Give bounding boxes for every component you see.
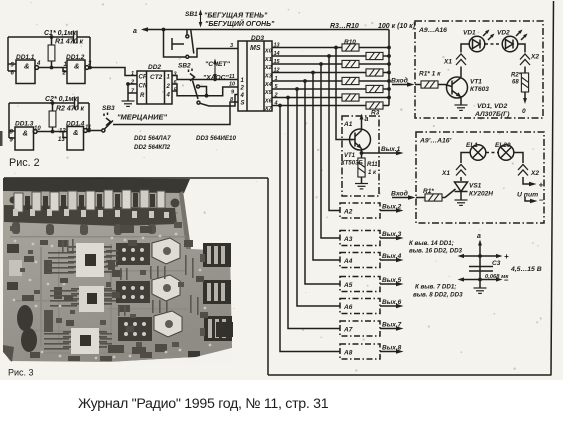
wire: X5 row (272, 88, 389, 90)
arrow: Вых.6 (380, 304, 404, 309)
wire: bus X0 to A1 (336, 48, 355, 140)
svg-text:A4: A4 (343, 258, 353, 265)
svg-text:VD1: VD1 (463, 30, 476, 37)
arrow: Вых.5 (380, 282, 404, 287)
node: R1 top junction (50, 35, 54, 39)
svg-text:DD2 564КП2: DD2 564КП2 (134, 144, 171, 151)
connector X2 lamp cell (518, 165, 528, 176)
svg-text:15: 15 (274, 59, 281, 65)
svg-text:–: – (539, 196, 544, 205)
lamp EL1 (470, 145, 486, 161)
wire: bus X3 to A4 (313, 73, 340, 261)
photo: right connector 3 (204, 316, 232, 341)
svg-text:R10: R10 (344, 39, 356, 46)
wire: DD2 CN and R to ground (128, 84, 137, 101)
photo: top component row shadow band (4, 205, 177, 226)
photo: bottom-right white paper notch (110, 348, 233, 366)
svg-text:1 к: 1 к (368, 170, 377, 176)
svg-text:X2: X2 (530, 170, 539, 177)
photo: right edge blob (216, 322, 233, 337)
thyristor VS1 (445, 182, 468, 200)
svg-text:DD1.4: DD1.4 (66, 121, 85, 128)
box A8 (340, 344, 380, 359)
resistor R1* lamp cell (416, 194, 445, 201)
box A3 (340, 231, 380, 246)
svg-text:3: 3 (174, 72, 177, 78)
svg-text:CN: CN (139, 84, 148, 90)
capacitor C3 (469, 267, 493, 272)
node: R1 bottom junction (50, 66, 54, 70)
arrow: Вход lamp cell (392, 195, 416, 200)
wire: bus X6 to A7 (288, 98, 340, 329)
svg-text:A2: A2 (343, 209, 353, 216)
photo: top row capacitors (14, 190, 165, 212)
svg-text:R1* 1 к: R1* 1 к (419, 71, 441, 78)
resistor R2 (49, 103, 56, 132)
resistor R5 (366, 85, 383, 92)
wire: X7 row (272, 105, 389, 107)
svg-text:R3: R3 (371, 110, 380, 117)
svg-text:КТ603: КТ603 (470, 86, 489, 93)
svg-text:DD1.3: DD1.3 (15, 121, 34, 128)
ground power (474, 288, 487, 293)
resistor R9 (366, 52, 383, 59)
svg-text:X2: X2 (530, 54, 539, 61)
arrow: Вых.2 (380, 208, 404, 213)
gate DD1.2 (67, 60, 89, 84)
ground LED cell (455, 105, 468, 110)
svg-text:2: 2 (62, 71, 67, 77)
svg-text:C2* 0,1мк: C2* 0,1мк (45, 96, 78, 103)
wire: dashed link VD1-VD2 (485, 43, 502, 45)
svg-text:4,5…15 В: 4,5…15 В (510, 266, 542, 273)
svg-text:Вых.5: Вых.5 (382, 277, 402, 284)
switch SB3 (102, 113, 113, 133)
photo: IC 1 (68, 243, 112, 277)
wire: bus X5 to A6 (297, 89, 340, 306)
node: emitter junction (360, 151, 364, 155)
svg-text:Вых.3: Вых.3 (382, 231, 402, 238)
node: SB2 junction (205, 94, 209, 98)
svg-text:CT2: CT2 (150, 74, 163, 81)
svg-text:13: 13 (274, 43, 280, 49)
svg-text:MS: MS (250, 45, 261, 52)
svg-text:DD2: DD2 (148, 64, 161, 71)
wire: EL20 to X2 lamp cell (514, 153, 532, 185)
svg-text:X3: X3 (264, 74, 273, 80)
photo: board base (3, 189, 232, 362)
wire: left drop to DD1.1 inputs (8, 37, 16, 71)
svg-text:S: S (241, 101, 245, 107)
arrow: Вых.4 (380, 258, 404, 263)
wire: EL1 to X1 (461, 153, 470, 182)
arrow: plus supply (529, 182, 537, 187)
svg-text:2: 2 (130, 80, 134, 86)
box A7 (340, 321, 380, 336)
box A2 (340, 203, 380, 218)
svg-text:Вых.2: Вых.2 (382, 204, 402, 211)
svg-text:+: + (539, 181, 544, 190)
svg-text:1: 1 (131, 71, 134, 77)
node: X2 bus junction (319, 62, 323, 66)
wire: SB2 lower contact to DD3 pin 9 (200, 95, 238, 107)
svg-text:A8: A8 (343, 350, 353, 357)
wire: DD1.4 output to SB3 contact (87, 103, 101, 131)
svg-text:a: a (133, 28, 137, 35)
LED VD2 (502, 36, 518, 52)
wire: bus X2 to A3 (321, 64, 340, 238)
svg-text:X0: X0 (264, 49, 273, 55)
svg-text:4: 4 (36, 61, 41, 67)
svg-text:DD1 564ЛА7: DD1 564ЛА7 (134, 135, 171, 142)
node: R2 top junction (51, 101, 55, 105)
wire: R2* to 0 (523, 92, 527, 104)
svg-text:VT1: VT1 (344, 153, 356, 159)
photo: board lower-left shadow (3, 345, 14, 362)
svg-text:0: 0 (522, 108, 526, 115)
svg-text:A7: A7 (343, 327, 353, 334)
gate DD1.3 (15, 127, 37, 150)
svg-text:A9…A16: A9…A16 (418, 27, 447, 34)
transistor VT1 A1 (350, 129, 371, 150)
capacitor C1 (74, 31, 78, 44)
LED VD1 (469, 36, 485, 52)
capacitor C2 (75, 97, 79, 110)
svg-text:R: R (140, 93, 145, 99)
photo: screw hole top-right (171, 199, 180, 208)
svg-text:12: 12 (274, 68, 280, 74)
node: feedback junction osc2 (87, 129, 91, 133)
svg-text:+: + (504, 252, 509, 261)
wire: emitter node to output (362, 149, 400, 154)
connector X1 LED cell (456, 54, 466, 65)
node: X1 bus junction (327, 54, 331, 58)
node: R2 bottom junction (51, 130, 55, 134)
wire: X4 row (272, 80, 389, 82)
svg-text:АЛ307Б(Г): АЛ307Б(Г) (474, 111, 510, 118)
connector X1 lamp cell (456, 165, 466, 176)
arrow: minus supply (525, 197, 538, 204)
svg-text:C3: C3 (492, 260, 501, 267)
node: X4 bus junction (303, 79, 307, 83)
svg-text:R1*: R1* (423, 188, 434, 195)
wire: net a common right rail (388, 30, 390, 106)
wire: VD2 to X2 and R2* (518, 44, 525, 73)
svg-text:10: 10 (34, 126, 41, 132)
svg-text:100 к (10 к): 100 к (10 к) (378, 23, 416, 30)
wire: minus tap (458, 277, 503, 281)
photo: screw hole top-left (10, 197, 17, 204)
svg-text:DD1.2: DD1.2 (66, 54, 85, 61)
photo: bottom edge blob (188, 351, 200, 363)
svg-text:DD3: DD3 (251, 35, 264, 42)
svg-text:EL1: EL1 (466, 142, 478, 149)
wire: X1 row (272, 55, 389, 57)
svg-text:X1: X1 (441, 170, 450, 177)
svg-text:U пит: U пит (517, 192, 538, 199)
svg-text:&: & (24, 62, 29, 71)
node: X6 bus junction (286, 96, 290, 100)
wire: SB1 upper contact stub (186, 30, 188, 35)
wire: X0 row (272, 47, 389, 49)
svg-text:A5: A5 (343, 282, 353, 289)
arrow: net a pointer (143, 29, 152, 31)
ground lamp cell (455, 200, 468, 205)
svg-text:X5: X5 (264, 90, 273, 96)
photo: transistor cluster 3 (118, 317, 152, 341)
wire: bus X7 to A8 (280, 106, 340, 352)
svg-text:4: 4 (240, 93, 245, 99)
svg-text:X7: X7 (264, 106, 273, 112)
svg-text:КУ202Н: КУ202Н (469, 191, 493, 198)
wire: net a rail (143, 29, 389, 31)
resistor R2* (521, 73, 528, 92)
photo: cylinder bodies below band (12, 222, 156, 235)
wire: emitter to ground LED cell (460, 97, 462, 105)
svg-text:a: a (477, 233, 481, 240)
svg-text:"БЕГУЩИЙ ОГОНЬ": "БЕГУЩИЙ ОГОНЬ" (205, 19, 275, 28)
photo: heatsink 3 (154, 311, 182, 337)
svg-text:Вых.6: Вых.6 (382, 299, 402, 306)
ground at DD2 (122, 101, 135, 106)
wire: DD1.3 output node to DD1.4 inputs (37, 132, 67, 138)
box A6 (340, 299, 380, 314)
svg-text:–: – (504, 276, 509, 285)
svg-text:1: 1 (275, 76, 278, 82)
resistor R6 (342, 77, 359, 84)
node: X7 bus junction (278, 104, 282, 108)
svg-text:X1: X1 (443, 59, 452, 66)
svg-text:A3: A3 (343, 236, 353, 243)
photo: IC pin leg rows (44, 250, 118, 350)
IC DD3 (238, 41, 272, 111)
connector X2 LED cell (520, 54, 530, 65)
svg-text:Вход: Вход (391, 190, 408, 198)
node: rail junctions (387, 46, 391, 50)
photo: dark speckles (10, 222, 205, 347)
wire: left drop to DD1.3 inputs (9, 103, 15, 138)
photo: right connector 2 (203, 280, 231, 304)
arrow: Вых.8 (380, 349, 404, 354)
box A1 (342, 116, 379, 196)
photo: right connector 1 (203, 243, 231, 267)
svg-text:"МЕРЦАНИЕ": "МЕРЦАНИЕ" (117, 113, 168, 122)
svg-text:"БЕГУЩАЯ ТЕНЬ": "БЕГУЩАЯ ТЕНЬ" (204, 13, 268, 20)
resistor R8 (342, 60, 359, 67)
svg-text:2: 2 (240, 86, 245, 92)
svg-text:A1: A1 (343, 121, 353, 128)
wire: supply vertical (479, 256, 481, 288)
wire: bus X4 to A5 (305, 81, 340, 284)
node: X3 bus junction (311, 71, 315, 75)
switch SB1 (172, 30, 194, 58)
svg-text:4: 4 (166, 93, 171, 99)
photo: extra mid-board parts (22, 240, 208, 361)
wire: DD1.2 output to feedback and DD2 CP (89, 37, 137, 76)
svg-text:X2: X2 (264, 65, 273, 71)
scan speckle noise (14, 2, 541, 371)
svg-text:К выв. 14 DD1;: К выв. 14 DD1; (409, 240, 454, 247)
svg-text:13: 13 (58, 137, 65, 143)
svg-text:&: & (73, 128, 78, 137)
resistor R1* LED cell (415, 81, 452, 88)
scan artifact left edge (0, 131, 3, 146)
svg-text:A9'…A16': A9'…A16' (419, 138, 452, 145)
svg-text:Журнал "Радио" 1995 год, № 11,: Журнал "Радио" 1995 год, № 11, стр. 31 (78, 396, 329, 412)
arrow: Вых.7 (380, 326, 404, 331)
svg-text:68: 68 (512, 80, 519, 86)
wire: VD1 to X1 connector (461, 44, 469, 77)
svg-text:4: 4 (274, 101, 278, 107)
svg-text:выв. 16 DD2, DD3: выв. 16 DD2, DD3 (409, 248, 463, 255)
svg-text:14: 14 (274, 51, 280, 57)
svg-text:3: 3 (230, 43, 233, 49)
svg-text:A6: A6 (343, 304, 353, 311)
svg-text:CP: CP (139, 75, 148, 81)
photo: dark bodies between caps (25, 193, 155, 210)
svg-text:VD1, VD2: VD1, VD2 (477, 103, 507, 110)
wire: X6 row (272, 97, 389, 99)
svg-text:Рис. 3: Рис. 3 (8, 368, 34, 378)
resistor R11 (358, 153, 365, 184)
box A5 (340, 277, 380, 292)
box A9'...A16' (416, 132, 544, 223)
node: plus junction (478, 254, 482, 258)
photo: transistor cluster 2 (116, 281, 150, 303)
wire: bus X1 to A2 (329, 56, 340, 211)
svg-text:11: 11 (229, 74, 235, 80)
svg-text:DD1.1: DD1.1 (16, 54, 35, 61)
photo: trace texture lines (8, 212, 188, 354)
wire: C1 feedback top rail osc1 (8, 36, 90, 38)
wire: DD1.1 output node to DD1.2 inputs (39, 68, 67, 72)
svg-text:X4: X4 (264, 82, 273, 88)
svg-text:"СЧЕТ": "СЧЕТ" (205, 61, 231, 68)
photo: vertical jumper legs (62, 239, 199, 316)
photo: dark top edge strip (3, 178, 190, 193)
svg-text:2: 2 (166, 84, 171, 90)
svg-text:Вых.1: Вых.1 (381, 146, 401, 153)
node: SB1 tap junction (162, 28, 166, 32)
svg-text:Вых.4: Вых.4 (382, 253, 402, 260)
svg-text:Вых.7: Вых.7 (382, 322, 402, 329)
transistor VT1 LED cell (447, 77, 468, 98)
lamp EL20 (498, 145, 514, 161)
resistor R1 (48, 37, 55, 68)
wire: SB1 to DD3 pin 3 (189, 49, 238, 58)
arrow: Вход LED cell (392, 82, 415, 87)
photo: IC 2 (71, 286, 112, 312)
svg-text:&: & (23, 129, 28, 138)
svg-text:R2*: R2* (511, 73, 522, 79)
svg-text:R11: R11 (367, 162, 378, 168)
wire: plus tap (458, 254, 503, 258)
svg-text:11: 11 (85, 125, 92, 131)
svg-text:Рис. 2: Рис. 2 (9, 157, 40, 169)
svg-text:Вход: Вход (391, 77, 408, 85)
switch SB2 (189, 69, 201, 105)
svg-text:2: 2 (274, 93, 278, 99)
svg-text:VS1: VS1 (469, 183, 482, 190)
gate DD1.1 (16, 60, 39, 84)
photo: left column parts (7, 244, 53, 352)
wire: X2 row (272, 63, 389, 65)
arrow: SB1 mode selector double arrow (200, 12, 202, 25)
wire: SB2 upper contact zigzag to DD3 pin 10 (200, 87, 239, 96)
node: X5 bus junction (295, 87, 299, 91)
arrows: VD2 emission (516, 30, 528, 41)
arrow: Вых.3 (380, 236, 404, 241)
svg-text:10: 10 (229, 82, 235, 88)
svg-text:VD2: VD2 (497, 30, 510, 37)
svg-text:&: & (74, 62, 79, 71)
resistor R3 (366, 102, 383, 109)
svg-text:VT1: VT1 (470, 79, 482, 86)
svg-text:R2 470 к: R2 470 к (56, 106, 85, 113)
wire: SB1 lower contact feed (164, 30, 186, 58)
photo: transistor cluster 1 (116, 243, 150, 265)
photo: right edge shade (179, 191, 191, 249)
gate DD1.4 (67, 127, 87, 151)
svg-text:12: 12 (59, 129, 66, 135)
arrow: net a up (478, 240, 482, 257)
svg-text:a: a (365, 116, 369, 123)
photo: mid small parts (54, 225, 167, 354)
svg-text:C1* 0,1мк: C1* 0,1мк (44, 30, 77, 37)
node: feedback junction osc1 (88, 66, 92, 70)
svg-text:SB3: SB3 (102, 105, 115, 112)
node: CN gnd junction (126, 82, 130, 86)
ground A1 (355, 184, 368, 189)
node: X0 bus junction (334, 46, 338, 50)
svg-text:К выв. 7 DD1;: К выв. 7 DD1; (415, 284, 456, 291)
arrows: VD1 emission (483, 30, 495, 41)
photo: second row cylinder tips (13, 209, 169, 218)
wire: SB3 to DD3 pin S (113, 102, 238, 125)
wire: DD2 out1 to DD3 pin 11 (172, 76, 238, 80)
arrow: SB2 mode selector double arrow (214, 61, 216, 77)
svg-text:SB1: SB1 (185, 11, 198, 18)
svg-text:R1 470 к: R1 470 к (55, 39, 84, 46)
resistor R4 (342, 94, 359, 101)
wire: C2 feedback top rail osc2 (9, 102, 89, 104)
resistor R10 (342, 44, 359, 51)
svg-text:SB2: SB2 (178, 63, 191, 70)
node: SB2 arrow junction (213, 78, 216, 81)
wire: dashed link EL1-EL20 (486, 152, 498, 154)
box A4 (340, 253, 380, 268)
IC DD2 (137, 71, 172, 104)
wire: X3 row (272, 72, 389, 74)
photo: heatsink 1 (152, 238, 180, 264)
photo: heatsink 2 (152, 275, 180, 301)
resistor R7 (366, 69, 383, 76)
svg-text:Вых.8: Вых.8 (382, 345, 402, 352)
arrow: Вых.1 (396, 151, 404, 156)
svg-text:DD3 564ИЕ10: DD3 564ИЕ10 (196, 135, 236, 142)
photo: IC 3 (63, 328, 107, 354)
svg-text:R3…R10: R3…R10 (330, 23, 359, 30)
svg-text:выв. 8 DD2, DD3: выв. 8 DD2, DD3 (413, 292, 463, 299)
photo: solder speckles (13, 233, 212, 360)
wire: collector to net a arrow (360, 114, 364, 131)
svg-text:EL20: EL20 (495, 142, 511, 149)
box A9...A16 (415, 21, 543, 118)
svg-text:X6: X6 (264, 99, 273, 105)
node: minus junction (478, 278, 482, 282)
wire: DD2 out2 to SB2 (172, 84, 207, 96)
arrows group top (141, 10, 217, 82)
